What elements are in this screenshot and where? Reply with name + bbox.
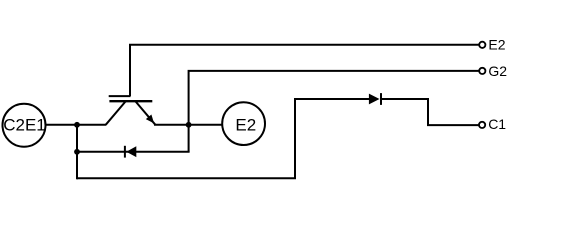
emitter arrowhead — [146, 115, 154, 124]
terminal pad E2 — [222, 102, 265, 145]
terminal C1 — [479, 122, 485, 128]
terminal pad C2E1 — [3, 104, 46, 147]
svg-text:C1: C1 — [488, 116, 506, 132]
wire: gate net (gate lead up then right to E2 terminal) — [130, 45, 479, 96]
svg-text:G2: G2 — [488, 63, 507, 79]
terminal G2 — [479, 68, 485, 74]
gate bar — [109, 95, 131, 97]
wire: bottom link from collector rail to diode D1 anode — [77, 99, 370, 178]
junction: collector node — [74, 122, 80, 128]
channel bar — [109, 100, 152, 102]
junction: emitter node — [186, 122, 192, 128]
wire: G2 net (vertical from diode branch up, then right to G2 terminal) — [189, 71, 479, 152]
svg-text:E2: E2 — [488, 37, 505, 53]
terminal E2 — [479, 42, 485, 48]
junction: diode D2 cathode node — [74, 149, 80, 155]
wire: collector node down to bottom rail — [76, 125, 78, 180]
wire: emitter leg to E2 pad — [154, 124, 222, 126]
diode D1 (series, cathode right) — [369, 93, 381, 105]
diode D2 (freewheel, cathode left) — [125, 146, 136, 158]
wire: diode D2 branch — [77, 151, 190, 153]
wire: C2E1 pad to IGBT collector leg — [46, 124, 106, 126]
svg-text:E2: E2 — [235, 115, 256, 134]
collector leg — [106, 101, 126, 124]
svg-text:C2E1: C2E1 — [3, 116, 46, 135]
IGBT Q2 — [106, 96, 156, 125]
emitter leg — [136, 101, 156, 124]
wire: D1 cathode to C1 terminal — [381, 99, 479, 125]
